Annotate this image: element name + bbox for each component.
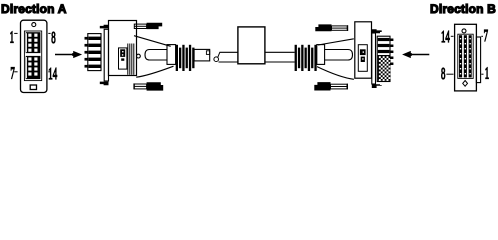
plug P1 pin tips bbox=[85, 37, 88, 68]
pin 7 leader B bbox=[481, 35, 483, 37]
plug P2 pin tips bbox=[390, 39, 393, 66]
cable sleeve left bbox=[194, 49, 210, 61]
svg-text:Direction A: Direction A bbox=[1, 2, 67, 16]
connector J2 shroud outline bbox=[458, 34, 473, 78]
thumbscrew top head bbox=[147, 23, 163, 29]
svg-text:1: 1 bbox=[10, 27, 14, 46]
connector J2 body (Direction B front view) bbox=[455, 24, 477, 91]
svg-text:14: 14 bbox=[48, 64, 57, 83]
pin 14 leader B bbox=[451, 35, 454, 37]
plug P1 hood body bbox=[109, 21, 137, 76]
boot collar left bbox=[167, 45, 176, 65]
pin 14 leader bbox=[48, 71, 50, 73]
thumbscrew bottom shaft right bbox=[331, 84, 348, 89]
plug P2 contacts upper bbox=[378, 38, 390, 53]
cable right top line bbox=[265, 51, 295, 53]
plug P2 taper top bbox=[318, 39, 354, 45]
plug P1 moulding text mark bbox=[120, 49, 125, 57]
pin 1 leader B bbox=[481, 73, 483, 75]
plug P2 hood body bbox=[355, 22, 372, 78]
plug P1 contacts bbox=[88, 37, 100, 68]
plug P1 screw tip bottom bbox=[100, 82, 109, 86]
plug P2 taper bottom bbox=[317, 67, 354, 80]
svg-text:7: 7 bbox=[484, 26, 489, 45]
plug P1 taper top bbox=[134, 36, 171, 47]
plug P1 rear dimple bbox=[137, 54, 141, 58]
plug P2 screw tip top bbox=[372, 29, 382, 33]
connector J1 index hole bbox=[32, 23, 36, 27]
svg-text:8: 8 bbox=[441, 64, 446, 83]
plug P2 hatch lower bbox=[378, 55, 390, 81]
pin 7 leader bbox=[14, 71, 17, 73]
plug P1 flange bbox=[104, 29, 108, 81]
thumbscrew top head right bbox=[315, 24, 331, 31]
connector J1 shroud outline bbox=[24, 31, 41, 81]
plug P2 moulding recess bbox=[358, 45, 367, 72]
connector J1 body (Direction A front view) bbox=[21, 20, 47, 92]
connector J1 pin field upper block bbox=[26, 32, 41, 79]
connector J1 polarizing square bbox=[30, 85, 36, 90]
boot collar right bbox=[317, 45, 325, 65]
thumbscrew top shaft right bbox=[332, 26, 348, 30]
pin 8 leader bbox=[48, 32, 50, 34]
arrow B (points left) bbox=[410, 54, 429, 56]
plug P2 moulding text mark bbox=[360, 49, 366, 55]
plug P1 shell bbox=[88, 34, 101, 71]
svg-text:7: 7 bbox=[10, 64, 15, 83]
connector J1 pins (white) bbox=[26, 33, 37, 78]
connector J2 polarizing diamond bbox=[463, 81, 468, 87]
plug P2 screw tip bottom bbox=[372, 84, 382, 88]
plug P1 screw tip top bbox=[100, 25, 109, 29]
pin 1 leader bbox=[14, 32, 17, 34]
plug P1 taper bottom bbox=[136, 66, 173, 77]
svg-text:14: 14 bbox=[441, 27, 450, 46]
thumbscrew bottom head bbox=[147, 82, 164, 90]
pin 8 leader B bbox=[446, 73, 453, 75]
cable left top line bbox=[220, 51, 239, 53]
cable squiggle left bbox=[214, 57, 219, 62]
thumbscrew top shaft bbox=[134, 24, 146, 28]
boot ribs right bbox=[295, 45, 317, 71]
plug P2 flange bbox=[372, 33, 376, 84]
connector J2 pin block stripes bbox=[459, 35, 472, 77]
svg-text:8: 8 bbox=[51, 28, 56, 47]
svg-text:1: 1 bbox=[485, 64, 489, 83]
plug P2 shell bbox=[377, 36, 390, 81]
cable right bottom line bbox=[265, 61, 295, 63]
boot ribs left bbox=[176, 45, 195, 71]
connector J2 index hole bbox=[462, 29, 466, 33]
boot neck left bbox=[145, 50, 168, 61]
boot neck right bbox=[325, 50, 353, 61]
svg-text:Direction B: Direction B bbox=[430, 2, 496, 16]
ferrite bead bbox=[238, 27, 265, 64]
arrow A (points right) bbox=[55, 54, 75, 56]
plug P1 moulding recess bbox=[119, 48, 127, 69]
connector J2 pin dots bbox=[460, 38, 471, 74]
thumbscrew bottom head right bbox=[314, 82, 330, 90]
thumbscrew bottom shaft bbox=[134, 84, 146, 89]
cable left bottom line bbox=[219, 61, 239, 63]
connector J2 side tab bbox=[476, 37, 480, 83]
plug P1 grip ridges bbox=[127, 44, 129, 75]
